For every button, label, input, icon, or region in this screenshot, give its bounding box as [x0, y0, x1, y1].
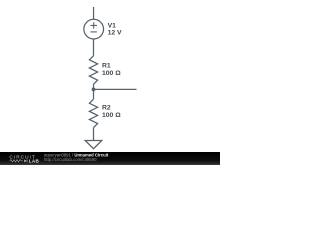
footer credit line 2 [44, 157, 97, 162]
svg-text:12 V: 12 V [108, 30, 122, 37]
wire top lead of V1 [93, 7, 95, 19]
schematic canvas [0, 0, 220, 165]
footer credit line 1 [44, 153, 108, 158]
svg-text:R2: R2 [102, 104, 111, 111]
V1 plus sign [90, 22, 97, 28]
svg-text:LAB: LAB [29, 159, 40, 164]
node junction dot [92, 88, 96, 92]
wire R1 bottom through junction to R2 top [93, 84, 95, 99]
watermark footer bar [0, 152, 220, 165]
CircuitLab logo [0, 152, 44, 165]
V1 minus sign [90, 31, 97, 33]
wire V1 bottom to R1 [93, 39, 95, 56]
svg-text:100 Ω: 100 Ω [102, 112, 121, 119]
wire R2 bottom to ground [93, 128, 95, 141]
ground symbol [85, 141, 102, 149]
svg-text:R1: R1 [102, 62, 111, 69]
voltage source V1 circle [84, 19, 104, 39]
wire horizontal stub from junction [94, 88, 137, 90]
svg-text:100 Ω: 100 Ω [102, 70, 121, 77]
resistor R2 zigzag [89, 99, 97, 127]
resistor R1 zigzag [89, 56, 97, 84]
